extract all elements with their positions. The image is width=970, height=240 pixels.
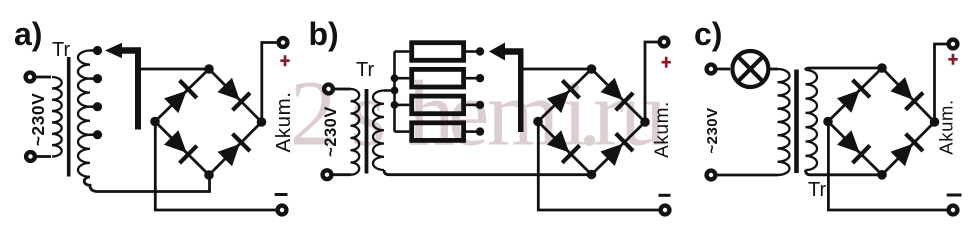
svg-text:Tr: Tr: [356, 59, 374, 81]
node: selector contact 3 (b): [476, 101, 484, 109]
selector wiper arrow (b): [489, 43, 505, 61]
svg-text:~230V: ~230V: [28, 93, 48, 147]
label minus (a): [275, 193, 288, 196]
svg-text:c): c): [694, 16, 722, 52]
resistor R2: [412, 69, 464, 87]
node: bridge c bottom junction: [877, 170, 887, 180]
node: selector contact 1 (b): [476, 47, 484, 55]
terminal: mains input top (c): [707, 65, 716, 74]
diode D4 (bottom-right) of bridge a: [218, 134, 251, 167]
label + (b): [662, 57, 671, 68]
node: bridge b bottom junction: [587, 170, 597, 180]
node: bridge a top junction: [204, 64, 214, 74]
node: tap 3 of secondary (a): [90, 105, 94, 108]
wire (bus to R2): [395, 77, 410, 80]
wire (secondary top to bus): [384, 89, 395, 92]
svg-text:Akum.: Akum.: [652, 101, 673, 158]
wire (tap bus b): [393, 52, 396, 132]
label minus (c): [947, 194, 962, 197]
selector wiper arrow (a): [105, 43, 122, 59]
node: tap 2 of secondary (a): [90, 77, 94, 80]
node: selector contact 4 (b): [476, 127, 484, 135]
wire: [334, 173, 351, 176]
transformer Tr (a): primary winding: [52, 77, 62, 157]
node: bridge b left junction: [533, 117, 543, 127]
wire (bridge a - output): [155, 122, 276, 211]
wire (secondary b bottom to bridge b bottom): [389, 173, 592, 176]
wire (bus to R1): [395, 50, 410, 53]
node: tap 1 of secondary (a): [90, 49, 94, 52]
svg-text:~230V: ~230V: [704, 107, 721, 153]
diode D3 (left-bottom) of bridge c: [837, 130, 870, 163]
resistor R1: [412, 43, 464, 61]
svg-text:b): b): [309, 16, 339, 52]
lamp (ballast bulb, c): [732, 51, 768, 87]
wire (R4 to tap contact): [466, 130, 476, 133]
wire: [335, 88, 351, 91]
wire (secondary c bottom sweep to bridge bottom): [806, 170, 883, 175]
transformer Tr (c): secondary winding: [806, 70, 818, 170]
bridge rectifier a: diamond wires: [155, 69, 262, 175]
node: bridge b top junction: [587, 64, 597, 74]
terminal: + output (c): [949, 40, 958, 49]
wire (bridge c - output): [828, 122, 946, 211]
wire (bus to R3): [395, 104, 410, 107]
diode D4 (bottom-right) of bridge b: [600, 133, 633, 166]
wire (bus to R4): [395, 130, 410, 133]
diode D2 (top-right) of bridge a: [218, 78, 251, 111]
diode D4 (bottom-right) of bridge c: [891, 134, 924, 167]
diode D3 (left-bottom) of bridge a: [164, 130, 197, 163]
terminal: - output (a): [278, 206, 287, 215]
diode D1 (left-top) of bridge a: [164, 80, 197, 113]
wire: [718, 68, 731, 71]
terminal: mains input top (b): [324, 85, 333, 94]
node: bus junction R3 (b): [391, 101, 399, 109]
svg-text:a): a): [14, 16, 42, 52]
node: bridge a right junction: [257, 117, 267, 127]
node: bridge c right junction: [930, 117, 940, 127]
terminal: mains input bottom (a): [26, 152, 35, 161]
node: bridge a bottom junction: [204, 170, 214, 180]
terminal: - output (c): [949, 206, 958, 215]
terminal: + output (a): [279, 38, 288, 47]
wire: [768, 68, 777, 71]
node: bus junction secondary (b): [391, 87, 399, 95]
wire (R2 to tap contact): [466, 77, 476, 80]
node: bridge a left junction: [150, 117, 160, 127]
wire (secondary bottom to bridge a bottom): [103, 175, 210, 192]
wire (wiper b to bridge top): [524, 68, 592, 71]
terminal: mains input bottom (c): [707, 171, 716, 180]
resistor R4: [412, 123, 464, 141]
transformer Tr (b): primary winding: [351, 89, 360, 175]
terminal: + output (b): [660, 38, 669, 47]
terminal: mains input bottom (b): [323, 170, 332, 179]
bridge rectifier c: diamond wires: [828, 68, 935, 175]
svg-text:Tr: Tr: [808, 179, 826, 201]
wire: [37, 155, 51, 158]
diode D1 (left-top) of bridge b: [547, 80, 580, 113]
terminal: mains input top (a): [26, 73, 35, 82]
node: bridge b right junction: [640, 117, 650, 127]
diode D1 (left-top) of bridge c: [837, 80, 870, 113]
wire (secondary c top to bridge top): [806, 68, 883, 70]
wire (bridge b - output): [538, 122, 658, 211]
wire (R1 to tap contact): [466, 50, 476, 53]
diode D2 (top-right) of bridge b: [600, 78, 633, 111]
wire (wiper to bridge top): [141, 68, 209, 71]
wire (secondary bottom sweep): [84, 177, 103, 192]
wire (R3 to tap contact): [466, 104, 476, 107]
terminal: - output (b): [661, 206, 670, 215]
svg-text:~230V: ~230V: [322, 106, 340, 157]
label minus (b): [659, 194, 671, 197]
wire (bridge a + output): [262, 43, 277, 123]
transformer Tr (c): primary winding: [778, 69, 790, 175]
wire (bridge c + output): [935, 44, 947, 122]
resistor R3: [412, 96, 464, 114]
node: selector contact 2 (b): [476, 74, 484, 82]
diode D2 (top-right) of bridge c: [890, 77, 923, 110]
wire (secondary b bottom sweep): [384, 170, 389, 175]
wire: [37, 76, 52, 79]
wire: [718, 174, 778, 177]
diode D3 (left-bottom) of bridge b: [547, 130, 580, 163]
svg-text:Akum.: Akum.: [936, 99, 957, 154]
label + (c): [948, 54, 957, 65]
bridge rectifier b: diamond wires: [538, 69, 645, 175]
node: bridge c left junction: [823, 117, 833, 127]
node: bridge c top junction: [877, 63, 887, 73]
wire (bridge b + output): [645, 42, 658, 122]
node: bus junction R2 (b): [391, 74, 399, 82]
transformer Tr (b): secondary winding: [373, 91, 384, 171]
transformer Tr (a): core: [67, 57, 71, 177]
node: tap 4 of secondary (a): [90, 133, 94, 136]
transformer Tr (a): secondary winding with taps: [78, 51, 90, 177]
label + (a): [280, 55, 289, 66]
transformer Tr (b): core: [365, 89, 369, 174]
transformer Tr (c): core: [794, 70, 799, 174]
svg-text:Akum.: Akum.: [272, 91, 295, 152]
